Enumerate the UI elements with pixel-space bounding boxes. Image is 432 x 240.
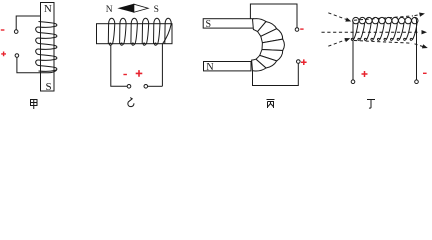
wire right lead to positive terminal xyxy=(148,85,163,87)
air-core solenoid coil (10 turns) xyxy=(351,17,418,40)
label jia xyxy=(31,100,38,110)
coil winding around vertical core (5 turns) xyxy=(36,22,57,72)
magnetic field line bottom (dashed) xyxy=(328,38,428,48)
plus sign xyxy=(136,70,143,77)
svg-text:S: S xyxy=(45,81,51,93)
minus sign xyxy=(123,74,127,75)
plus sign xyxy=(362,71,368,77)
minus sign xyxy=(300,28,303,29)
wire right lead down xyxy=(415,18,417,80)
compass needle black half xyxy=(119,4,134,12)
label yi xyxy=(128,98,134,107)
compass needle white half xyxy=(134,4,148,12)
minus sign xyxy=(423,73,427,74)
negative terminal xyxy=(127,85,131,89)
wire from negative terminal to coil top xyxy=(16,16,40,30)
positive terminal xyxy=(144,85,148,89)
wire left lead down xyxy=(352,21,354,80)
horizontal solenoid core (panel yi) xyxy=(97,24,173,44)
minus sign xyxy=(1,29,5,30)
negative terminal xyxy=(415,80,419,84)
negative terminal xyxy=(14,30,18,34)
bottom bar N pole of U-magnet xyxy=(204,62,252,74)
label bing xyxy=(267,100,275,109)
top bar S pole of U-magnet xyxy=(203,19,253,31)
magnetic field line middle (dashed, arrows right) xyxy=(322,30,428,34)
magnetic field line top (dashed) xyxy=(328,13,425,22)
wire left lead to negative terminal xyxy=(111,45,127,86)
label ding xyxy=(367,100,375,109)
plus sign xyxy=(1,52,6,57)
coil winding around horizontal core (6 turns) xyxy=(108,18,171,86)
negative terminal xyxy=(295,28,299,32)
positive terminal xyxy=(297,60,301,64)
svg-text:N: N xyxy=(206,62,213,73)
wire from top bar to negative terminal xyxy=(250,4,297,28)
svg-text:S: S xyxy=(206,19,212,30)
iron core bar with N/S poles (panel jia) xyxy=(41,3,55,94)
wire from positive terminal to coil bottom xyxy=(17,57,57,73)
plus sign xyxy=(301,59,307,65)
svg-text:S: S xyxy=(154,5,159,15)
svg-text:N: N xyxy=(44,3,52,15)
coil winding around U-bend (7 turns) xyxy=(252,19,285,71)
wire from bottom bar to positive terminal xyxy=(253,63,299,85)
positive terminal xyxy=(15,54,19,58)
positive terminal xyxy=(351,80,355,84)
svg-text:N: N xyxy=(106,5,113,15)
